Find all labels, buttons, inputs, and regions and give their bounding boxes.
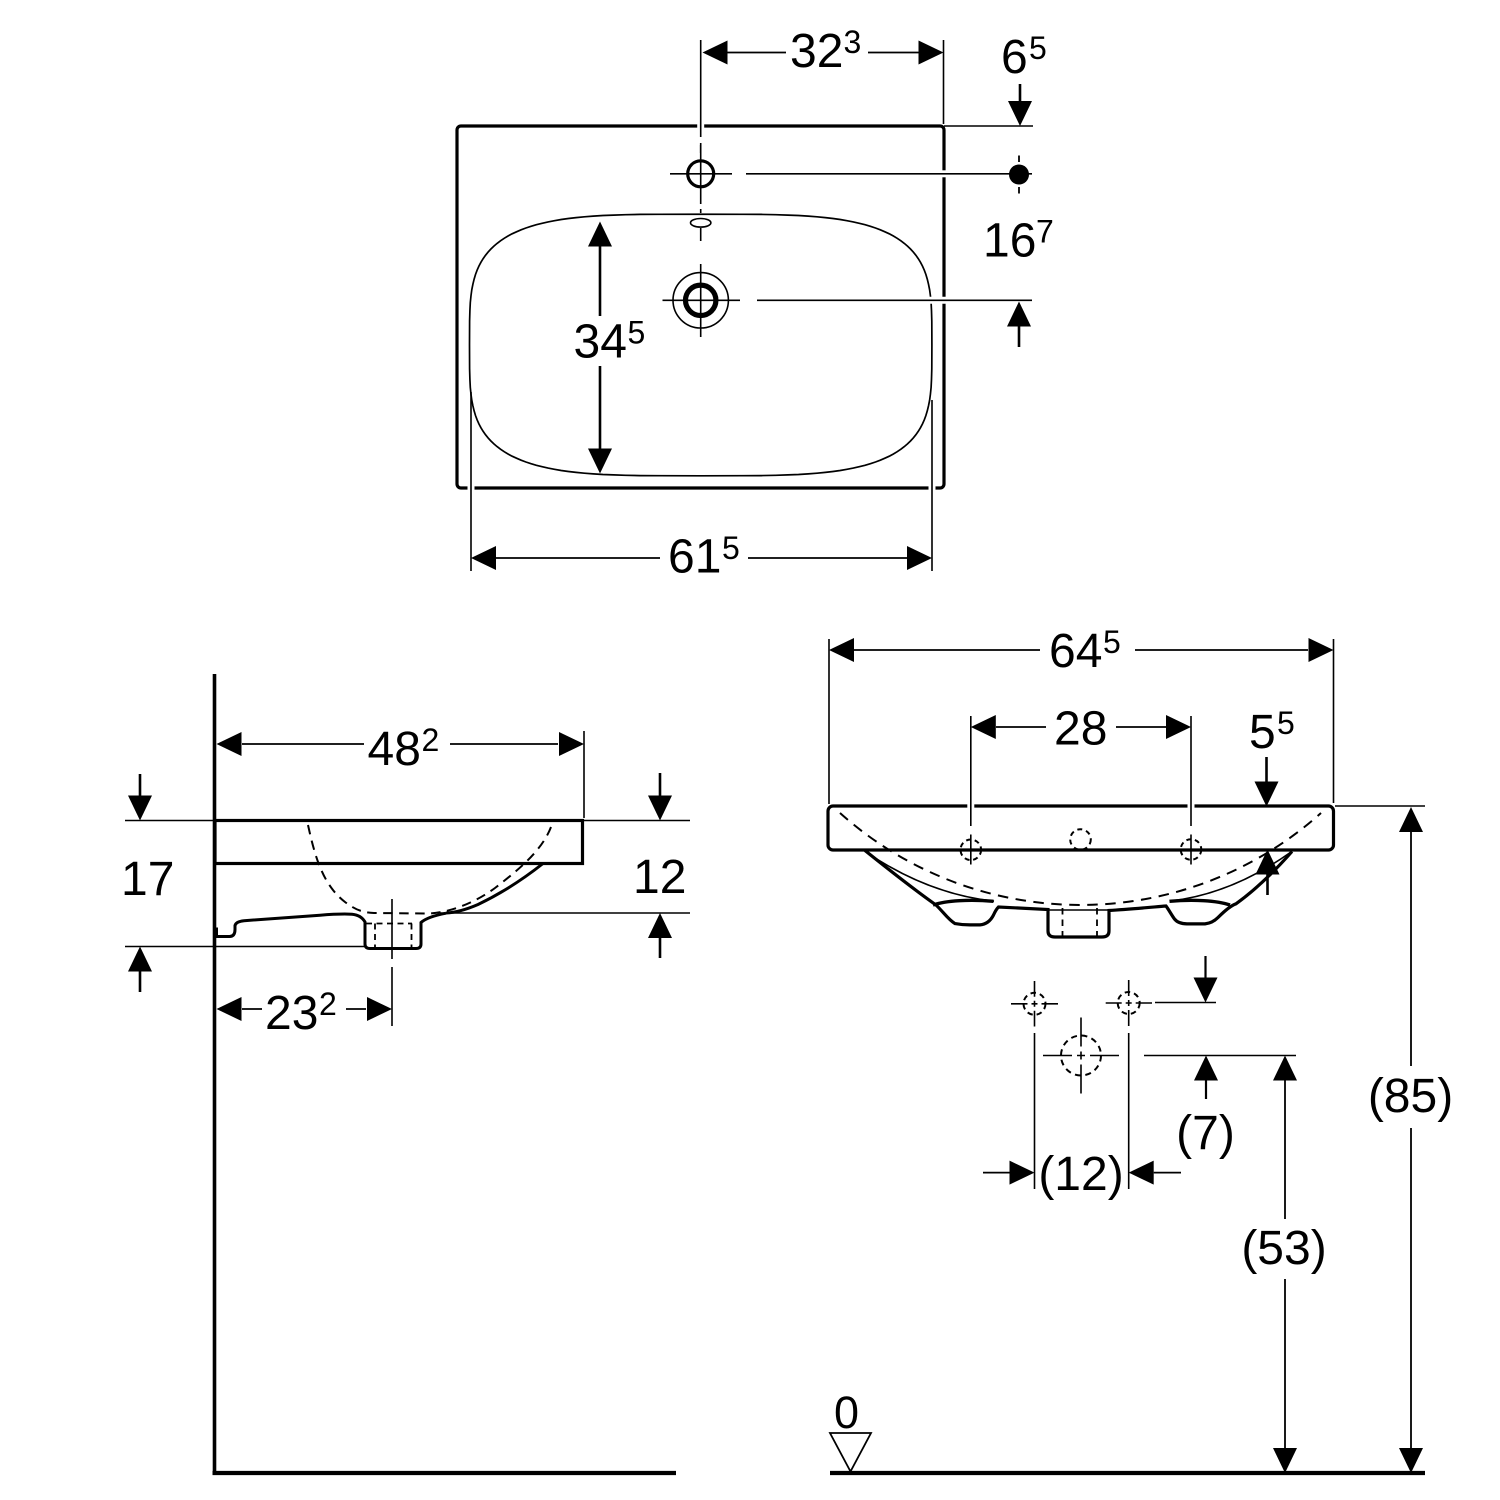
- dimension 16-7: dot marker at faucet line: [1018, 156, 1020, 163]
- svg-text:17: 17: [121, 853, 174, 906]
- dimension 7: arrow down: [1204, 956, 1206, 978]
- dimension 64-5: extension lines: [829, 639, 1334, 804]
- dimension 32-3: right arrowhead: [919, 41, 944, 65]
- svg-text:12: 12: [633, 851, 686, 904]
- drain boss top edge (thin): [1048, 909, 1109, 911]
- dimension 12: arrow up to underside line: [648, 913, 672, 938]
- svg-text:16: 16: [983, 215, 1036, 268]
- leader line drain to 16-7 arrow: [757, 299, 1032, 301]
- svg-text:5: 5: [1103, 624, 1121, 660]
- white halo for line crossing right edge at faucet level: [938, 170, 952, 177]
- svg-text:5: 5: [1277, 705, 1295, 741]
- dimension 28: witness line left: [970, 716, 972, 826]
- deck slab front (bold rounded rectangle): [828, 806, 1334, 850]
- svg-text:2: 2: [319, 986, 337, 1022]
- dimension 85: line with arrows: [1399, 807, 1423, 832]
- dimension 12w: arrow left to right hole axis: [1129, 1161, 1154, 1185]
- dimension 34-5: arrow down to rim bottom: [599, 366, 602, 449]
- front crease thin arc right: [1170, 852, 1292, 901]
- reference line at fixing holes level (for dim 7): [1155, 1002, 1216, 1004]
- front crease thin arc left: [866, 852, 994, 901]
- wall line: [213, 674, 217, 1473]
- dimension 7: arrow up: [1194, 1056, 1218, 1081]
- dimension 48-2: extension line right: [583, 731, 585, 818]
- hidden basin rim (big dashed arc): [840, 813, 1321, 905]
- reference line at bowl underside (right, for dim 12): [440, 912, 690, 914]
- dimension 16-7: arrow up to drain line: [1007, 302, 1031, 327]
- dimension 23-2: arrowheads: [217, 997, 242, 1021]
- svg-text:5: 5: [722, 530, 740, 566]
- dimension 12: arrow down to deck top: [659, 773, 662, 797]
- white halo where centreline crosses rect top edge: [697, 118, 704, 134]
- white halo for line crossing basin rim and right edge at drain level: [923, 297, 952, 304]
- drain boss hidden edges front (dashed): [1063, 908, 1098, 936]
- deck slab section (bold rectangle): [215, 821, 583, 864]
- drain boss hidden edges (dashed): [366, 924, 412, 949]
- faucet hole (bold circle): [688, 161, 714, 187]
- dimension 6-5: arrow down to top edge: [1019, 84, 1022, 102]
- reference line slab top right (for dim 85): [1335, 805, 1425, 807]
- svg-text:(12): (12): [1038, 1148, 1123, 1201]
- reference line at drain level (for dims 7 and 53): [1144, 1055, 1296, 1057]
- dimension 48-2: dim line: [242, 743, 558, 745]
- dimension 53: line with arrows: [1273, 1056, 1297, 1081]
- svg-text:5: 5: [1249, 706, 1276, 759]
- reference line at deck top (right extension for dim 12): [583, 820, 691, 822]
- drain crosshair: [663, 264, 741, 337]
- white halo where 28-witness crosses slab edge (right): [1188, 800, 1195, 812]
- svg-text:(85): (85): [1368, 1070, 1453, 1123]
- hidden bowl outline (dashed U): [308, 825, 551, 914]
- dimension 5-5: arrow up to slab bottom: [1256, 850, 1280, 875]
- basin underside profile with drain boss (bold): [217, 913, 447, 948]
- dimension 61-5: arrowheads: [471, 546, 496, 570]
- white halo where 28-witness crosses slab edge (left): [967, 800, 974, 812]
- svg-text:23: 23: [265, 987, 318, 1040]
- wall fixing hole left (dashed circle + crosshair): [1024, 993, 1046, 1015]
- svg-text:(7): (7): [1176, 1107, 1235, 1160]
- wall fixing hole right (dashed circle + crosshair): [1118, 992, 1140, 1014]
- dimension 32-3: dim line: [727, 52, 920, 54]
- deck mounting hole left (dashed circle + centreline): [961, 840, 982, 861]
- deck mounting hole right (dashed circle + centreline): [1181, 839, 1202, 860]
- dimension 23-2: dim line: [242, 1008, 366, 1010]
- svg-text:5: 5: [628, 315, 646, 351]
- visible bowl underside curve (bold): [446, 864, 543, 914]
- dimension 34-5: arrow up to rim top: [588, 222, 612, 247]
- dimension 48-2: arrowheads: [217, 732, 242, 756]
- floor line right: [830, 1471, 1425, 1475]
- dimension 17: arrow up to basin bottom: [128, 947, 152, 972]
- faucet hole crosshair: [670, 145, 732, 204]
- dimension 64-5: dim line: [854, 649, 1308, 651]
- dimension 61-5: dim line: [496, 557, 907, 559]
- svg-text:28: 28: [1054, 703, 1107, 756]
- svg-text:64: 64: [1049, 625, 1102, 678]
- dimension 5-5: arrow down to slab top: [1265, 757, 1268, 782]
- leader line faucet to 16-7 dot: [746, 173, 1032, 175]
- dimension 32-3: left arrowhead: [703, 41, 728, 65]
- vertical centreline above faucet / extension of dim 32-3: [700, 40, 702, 153]
- drain centre tick: [697, 296, 706, 305]
- svg-text:48: 48: [368, 723, 421, 776]
- floor line left: [213, 1471, 677, 1475]
- svg-text:61: 61: [668, 531, 721, 584]
- svg-text:3: 3: [844, 24, 862, 60]
- svg-text:34: 34: [574, 316, 627, 369]
- svg-text:2: 2: [422, 722, 440, 758]
- bowl silhouette with feet and drain boss (bold): [865, 851, 1292, 938]
- dimension 64-5: arrowheads: [829, 638, 854, 662]
- dimension 17: arrow down to deck top: [139, 774, 142, 797]
- drain outer thin circle: [673, 273, 728, 328]
- dimension 28: witness line right: [1190, 716, 1192, 826]
- basin bowl rim outline (plan): [470, 214, 932, 476]
- reference line at basin lowest point (for dim 17): [125, 946, 365, 948]
- svg-text:(53): (53): [1241, 1222, 1326, 1275]
- overflow slot ellipse: [691, 219, 711, 228]
- svg-text:32: 32: [790, 25, 843, 78]
- faucet centre tick: [697, 169, 705, 178]
- centreline dash between overflow and drain: [700, 209, 702, 241]
- svg-text:5: 5: [1029, 30, 1047, 66]
- dimension 28: arrowheads: [971, 715, 996, 739]
- left foot top lens edge (bold): [933, 900, 994, 905]
- svg-text:7: 7: [1036, 214, 1054, 250]
- extension lines below fixing holes (for dim 12): [1035, 1033, 1129, 1189]
- washbasin body outline (plan): [457, 126, 944, 488]
- white halos where 61-5 witness lines cross rect bottom edge: [471, 481, 932, 496]
- dimension 28: dim line: [996, 726, 1166, 728]
- dimension 61-5: extension lines: [471, 392, 932, 571]
- svg-text:0: 0: [834, 1387, 859, 1438]
- drain hole (bold ring): [686, 285, 716, 315]
- drain pipe hole (dashed circle + crosshair): [1061, 1036, 1101, 1076]
- right foot top lens edge (bold): [1170, 900, 1231, 905]
- drain axis centreline: [391, 899, 393, 1026]
- svg-text:6: 6: [1001, 31, 1028, 84]
- reference line at deck top (left extension for dim 17): [125, 820, 215, 822]
- faucet hole front (dashed circle): [1070, 829, 1091, 850]
- reference line top edge to 6-5 arrow: [944, 125, 1033, 127]
- dimension 12w: arrow right to left hole axis: [983, 1172, 1011, 1174]
- dimension 32-3: extension line right: [943, 40, 945, 124]
